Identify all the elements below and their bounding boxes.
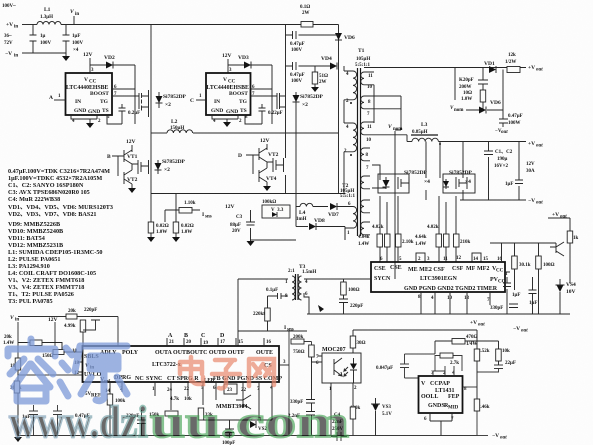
- svg-text:www.dzi: www.dzi: [9, 397, 148, 445]
- svg-text:uu.com: uu.com: [150, 397, 349, 445]
